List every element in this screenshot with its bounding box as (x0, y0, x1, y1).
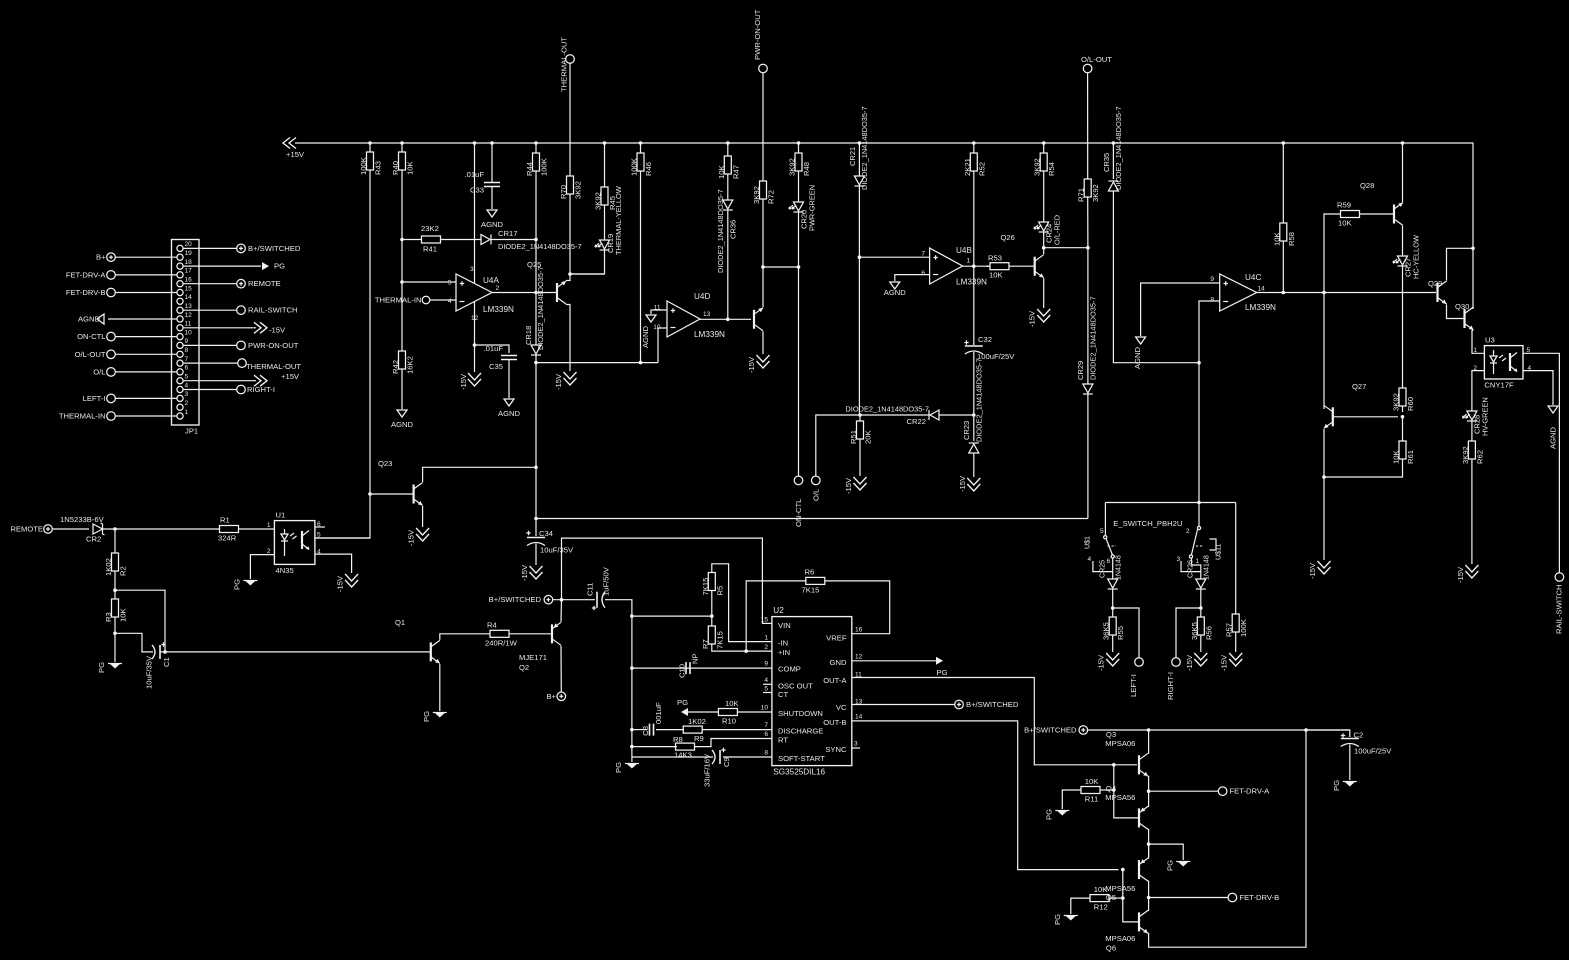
wire JP1 pin5 to +15V (183, 380, 256, 382)
svg-text:14: 14 (855, 714, 863, 721)
node Q3 base (1112, 763, 1116, 767)
node R8 tap (630, 745, 634, 749)
svg-text:VIN: VIN (778, 621, 791, 630)
wire Q6 emitter to bottom rail (1148, 730, 1306, 947)
wire JP1 pin17 to FET-DRV-A (116, 274, 177, 276)
svg-text:R3: R3 (104, 612, 113, 622)
svg-text:R47: R47 (731, 165, 740, 179)
connector JP1 (172, 240, 200, 436)
terminal O/L bottom (811, 476, 820, 501)
capacitor C2 (1306, 730, 1392, 756)
svg-text:1N4148: 1N4148 (1203, 555, 1211, 580)
svg-text:C33: C33 (470, 186, 484, 195)
svg-text:-IN: -IN (778, 639, 788, 648)
wire CR18 anode (535, 293, 537, 346)
svg-text:Q27: Q27 (1352, 382, 1366, 391)
terminal RIGHT-I right (237, 385, 275, 394)
svg-text:Q4: Q4 (1106, 784, 1117, 793)
wire U4B out to R53 (986, 265, 990, 267)
wire JP1 pin15 to FET-DRV-B (116, 292, 177, 294)
svg-text:R44: R44 (525, 161, 534, 176)
wire R4 to Q2 base (509, 633, 552, 635)
svg-text:LEFT-I: LEFT-I (83, 394, 106, 403)
node Q3 collector tap (1147, 728, 1151, 732)
terminal B+ (96, 253, 115, 262)
node Q24 collector (761, 265, 765, 269)
svg-text:3K92: 3K92 (1033, 158, 1042, 176)
svg-text:3K92: 3K92 (788, 158, 797, 176)
terminal O/L (93, 367, 115, 376)
svg-text:14K3: 14K3 (674, 751, 692, 760)
LED CR20 PWR-GREEN (789, 185, 817, 231)
svg-text:3K92: 3K92 (1392, 393, 1401, 411)
wire B+/SWITCHED row (1088, 729, 1350, 731)
wire JP1 pin18 to PG (183, 265, 261, 267)
svg-text:ON-CTL: ON-CTL (77, 332, 105, 341)
wire R10 to SHUTDOWN (737, 711, 772, 713)
resistor R2 (104, 529, 128, 576)
svg-text:1N4148: 1N4148 (1115, 555, 1123, 580)
svg-text:LM339N: LM339N (694, 330, 725, 339)
wire JP1 pin9 to PWR-ON-OUT (183, 344, 237, 346)
wire R60 to base node (1402, 406, 1404, 412)
svg-text:7: 7 (764, 722, 768, 729)
svg-text:16: 16 (185, 277, 193, 284)
wire R44 to CR17 node (535, 171, 537, 240)
resistor R58 (1272, 141, 1296, 246)
svg-text:THERMAL-OUT: THERMAL-OUT (246, 362, 301, 371)
svg-text:LM339N: LM339N (483, 305, 514, 314)
svg-text:O/L: O/L (811, 489, 820, 501)
transistor Q28 (1393, 205, 1395, 224)
svg-text:R6: R6 (805, 568, 815, 577)
capacitor C33 (465, 141, 501, 194)
svg-text:1: 1 (967, 258, 971, 265)
wire AGND to U4D plus (651, 310, 667, 314)
svg-text:SG3525DIL16: SG3525DIL16 (773, 768, 825, 777)
svg-text:CR36: CR36 (729, 220, 738, 239)
wire C35 link (475, 345, 510, 353)
svg-text:1K02: 1K02 (104, 558, 113, 576)
resistor R42 (391, 351, 415, 374)
wire Q29 emitter to Q30 base (1447, 305, 1465, 319)
node R5 R7 tap (630, 614, 634, 618)
wire CR23 to -15V (973, 453, 975, 477)
wire C2 to PG (1349, 745, 1351, 781)
svg-text:PG: PG (614, 762, 623, 773)
svg-text:.01uF: .01uF (484, 344, 504, 353)
wire R72 to collector node (762, 199, 764, 267)
svg-text:REMOTE: REMOTE (248, 279, 281, 288)
wire R41 row (402, 239, 421, 241)
svg-text:36K5: 36K5 (1190, 622, 1199, 640)
LED CR19 THERMAL-YELLOW (595, 186, 623, 255)
svg-text:3: 3 (1177, 556, 1181, 563)
wire C8 to R9 (656, 729, 684, 731)
svg-text:LM339N: LM339N (1245, 303, 1276, 312)
svg-text:CR17: CR17 (498, 229, 518, 238)
wire Q25 emitter to node (566, 274, 570, 281)
svg-text:5: 5 (448, 280, 452, 287)
wire U4B minus to AGND (895, 275, 930, 281)
svg-text:U3: U3 (1485, 336, 1495, 345)
resistor R70 (559, 176, 583, 199)
svg-text:AGND: AGND (391, 420, 414, 429)
svg-text:10K: 10K (1085, 777, 1099, 786)
optocoupler U1 4N35 (267, 511, 321, 576)
svg-text:DIODE2_1N4148DO35-7: DIODE2_1N4148DO35-7 (716, 189, 725, 273)
wire U4A supply pin3 (470, 141, 476, 283)
svg-text:8: 8 (764, 750, 768, 757)
wire B+/SWITCHED to C11 (553, 599, 595, 601)
power -15V below R56 (1185, 653, 1208, 671)
svg-text:10K: 10K (1338, 219, 1352, 228)
terminal RAIL-SWITCH bottom (1555, 573, 1564, 634)
resistor R43 (359, 141, 383, 175)
svg-text:12: 12 (185, 312, 193, 319)
wire Q28 emitter to rail (1401, 141, 1405, 202)
svg-text:3K92: 3K92 (1461, 446, 1470, 464)
svg-text:9: 9 (185, 338, 189, 345)
power -15V below Q26 (1028, 309, 1051, 327)
svg-text:O/L-OUT: O/L-OUT (75, 350, 106, 359)
svg-text:R70: R70 (559, 185, 568, 199)
svg-text:CR2: CR2 (86, 535, 101, 544)
svg-text:CR21: CR21 (848, 147, 857, 166)
svg-text:14: 14 (1258, 286, 1266, 293)
svg-text:PG: PG (233, 579, 242, 590)
wire +15V rail (295, 143, 1473, 309)
wire left column down (631, 616, 633, 757)
ground AGND below R42 (391, 410, 414, 429)
node R12 base tap (1121, 896, 1125, 900)
svg-text:20: 20 (185, 241, 193, 248)
svg-text:5: 5 (1100, 528, 1104, 535)
svg-text:JP1: JP1 (185, 427, 198, 436)
svg-text:PG: PG (1165, 860, 1174, 871)
svg-text:THERMAL-OUT: THERMAL-OUT (560, 37, 569, 92)
terminal RIGHT-I (1166, 658, 1180, 700)
svg-text:DIODE2_1N4148DO35-7: DIODE2_1N4148DO35-7 (845, 405, 929, 414)
svg-text:DIODE2_1N4148DO35-7: DIODE2_1N4148DO35-7 (498, 242, 582, 251)
svg-text:RT: RT (778, 736, 788, 745)
svg-text:3K92: 3K92 (574, 181, 583, 199)
svg-text:36K5: 36K5 (1102, 622, 1111, 640)
resistor R60 (1392, 388, 1416, 411)
svg-text:2: 2 (185, 400, 189, 407)
svg-text:R53: R53 (988, 254, 1002, 263)
svg-text:3: 3 (470, 266, 474, 273)
node C35 (473, 343, 477, 347)
wire CR35 to U4C minus row (1113, 191, 1199, 363)
wire soft-start row (632, 756, 713, 758)
svg-text:+15V: +15V (281, 372, 300, 381)
svg-text:O/L-RED: O/L-RED (1053, 215, 1062, 245)
wire Q24 emitter up (762, 267, 764, 307)
wire Q4 emitter up (1147, 791, 1150, 806)
node Q26 collector (1042, 246, 1046, 250)
wire OUT-B to Q5 base (852, 721, 1119, 870)
svg-text:2: 2 (496, 285, 500, 292)
svg-text:3: 3 (185, 391, 189, 398)
wire Q5 base chain down (1123, 870, 1139, 922)
wire R9 to DISCHARGE (702, 729, 772, 731)
resistor R45 (594, 141, 618, 210)
LED CR27 HC-YELLOW (1393, 235, 1421, 279)
transistor Q3 (1138, 755, 1140, 774)
svg-text:U4C: U4C (1245, 273, 1261, 282)
wire R56 to -15V (1200, 635, 1202, 652)
svg-text:20K: 20K (864, 430, 873, 444)
resistor R44 (525, 141, 549, 176)
wire JP1 pin16 to REMOTE (183, 283, 237, 285)
svg-text:-15V: -15V (1097, 654, 1106, 671)
label Q3 MPSA06 (1105, 730, 1135, 748)
resistor R61 (1392, 417, 1416, 464)
wire GND pin12 to PG (852, 660, 936, 662)
svg-text:SYNC: SYNC (825, 745, 847, 754)
terminal THERMAL-IN (59, 412, 115, 421)
svg-text:VREF: VREF (826, 634, 847, 643)
svg-text:PG: PG (97, 662, 106, 673)
power -15V below C34 (520, 564, 543, 581)
node U4C minus riser (1197, 361, 1201, 365)
svg-text:-15V: -15V (844, 477, 853, 494)
svg-text:B+/SWITCHED: B+/SWITCHED (966, 700, 1019, 709)
wire U1 pin4 to -15V (315, 554, 352, 573)
resistor R40 (391, 141, 415, 175)
op-amp U4B LM339N (921, 246, 987, 287)
svg-text:NP: NP (691, 653, 700, 664)
resistor R47 (717, 141, 741, 179)
ground AGND at U4C (1133, 337, 1146, 369)
svg-text:AGND: AGND (884, 288, 907, 297)
svg-text:Q2: Q2 (519, 663, 529, 672)
wire JP1 pin1 to THERMAL-IN (116, 415, 177, 417)
node R51 top (858, 413, 862, 417)
wire CR29 to bus (1087, 394, 1089, 519)
ground PG below R11 (1045, 809, 1070, 820)
power -15V at U1 pin4 (336, 574, 359, 592)
svg-text:C1: C1 (162, 657, 171, 667)
svg-text:B+/SWITCHED: B+/SWITCHED (1024, 726, 1077, 735)
wire R42 to AGND (401, 369, 403, 409)
wire COMP row (632, 667, 772, 669)
svg-text:10uF/35V: 10uF/35V (145, 655, 154, 689)
transistor Q30 (1463, 309, 1465, 328)
svg-text:PWR-ON-OUT: PWR-ON-OUT (753, 9, 762, 60)
wire mid to Q5 (1148, 844, 1150, 858)
svg-text:10K: 10K (119, 608, 128, 622)
svg-text:10uF/35V: 10uF/35V (540, 546, 574, 555)
capacitor C11 (586, 566, 611, 610)
svg-text:100K: 100K (540, 158, 549, 176)
transistor Q25 (556, 283, 558, 302)
svg-text:C10: C10 (678, 664, 687, 678)
svg-text:R58: R58 (1287, 232, 1296, 246)
wire CR36 to U4D output (727, 210, 729, 319)
svg-text:SHUTDOWN: SHUTDOWN (778, 709, 823, 718)
svg-text:6: 6 (921, 270, 925, 277)
node LEFT-I tap (1111, 606, 1115, 610)
terminal O/L-OUT (75, 350, 116, 359)
svg-text:LM339N: LM339N (956, 278, 987, 287)
power -15V below R55 (1097, 653, 1120, 671)
wire Q1 collector to R4 (440, 634, 490, 640)
svg-text:PWR-GREEN: PWR-GREEN (808, 185, 817, 231)
svg-text:PG: PG (274, 262, 285, 271)
wire R54 to CR24 (1043, 171, 1045, 222)
resistor R5 (701, 573, 725, 596)
wire R3 to PG (114, 633, 116, 662)
svg-text:R59: R59 (1337, 201, 1351, 210)
resistor R53 (988, 254, 1009, 280)
wire JP1 pin7 to THERMAL-OUT (183, 362, 238, 364)
wire Q3 emitter to FET-DRV-A (1147, 776, 1150, 791)
svg-text:6: 6 (1107, 558, 1111, 565)
wire CR20 to node row (763, 212, 799, 267)
svg-text:U4A: U4A (483, 276, 499, 285)
svg-text:VC: VC (836, 703, 847, 712)
wire Q1 emitter to PG (439, 664, 441, 711)
wire O/L-OUT to R71 (1087, 73, 1089, 179)
wire Q25 node to CR19 (570, 273, 604, 275)
ground AGND below C35 (498, 399, 521, 418)
wire PWR-ON-OUT to R72 (762, 73, 764, 181)
svg-text:E_SWITCH_PBH2U: E_SWITCH_PBH2U (1113, 519, 1182, 528)
svg-text:OUT-A: OUT-A (823, 676, 847, 685)
wire CR26 to node (1200, 589, 1202, 608)
node CR20 bottom (797, 265, 801, 269)
svg-text:R5: R5 (715, 586, 724, 596)
wire to U4A plus (402, 281, 456, 283)
diode CR21 (848, 106, 869, 190)
node Q2 emitter tap (560, 598, 564, 602)
svg-text:18: 18 (185, 259, 193, 266)
wire JP1 pin8 to O/L-OUT (116, 353, 177, 355)
svg-text:R61: R61 (1406, 450, 1415, 464)
node U4A output (534, 291, 538, 295)
wire R5 to R7 junction (711, 591, 713, 627)
wire U4C out riser to Q27 (1323, 293, 1325, 410)
node FET-DRV-A (1147, 789, 1151, 793)
svg-text:R48: R48 (802, 162, 811, 176)
node C1 right (163, 650, 167, 654)
svg-text:R56: R56 (1204, 626, 1213, 640)
terminal LEFT-I (1129, 658, 1143, 697)
wire JP1 pin19 to B+ (116, 256, 177, 258)
wire R11 to PG (1062, 790, 1081, 809)
svg-text:8: 8 (1210, 297, 1214, 304)
svg-text:10K: 10K (989, 271, 1003, 280)
wire Q24 collector to -15V (762, 331, 764, 354)
svg-text:324R: 324R (218, 534, 237, 543)
svg-text:HC-YELLOW: HC-YELLOW (1412, 235, 1421, 279)
power -15V at JP1 pin11 (254, 322, 286, 334)
terminal FET-DRV-A out (1218, 787, 1270, 796)
wire CR18 cathode node (535, 355, 537, 363)
svg-text:PG: PG (677, 698, 688, 707)
resistor R3 (104, 590, 128, 622)
svg-text:Q3: Q3 (1106, 730, 1116, 739)
node U4A plus input (400, 280, 404, 284)
wire node to C1 right (115, 590, 165, 652)
node R60 bottom (1401, 415, 1405, 419)
svg-text:OUT-B: OUT-B (823, 718, 846, 727)
ground PG below R12 (1053, 914, 1078, 925)
svg-text:MPSA56: MPSA56 (1105, 884, 1135, 893)
wire R47 to CR36 (727, 174, 729, 200)
terminal REMOTE input (10, 525, 52, 534)
diode CR18 (524, 266, 545, 355)
power -15V below R62 (1456, 565, 1478, 583)
svg-text:U4B: U4B (956, 246, 972, 255)
wire R61 to emitter row (1324, 459, 1403, 477)
diode CR17 (481, 229, 582, 251)
svg-text:C11: C11 (586, 583, 595, 596)
svg-text:FET-DRV-B: FET-DRV-B (66, 288, 106, 297)
terminal O/L-OUT top (1081, 55, 1112, 73)
wire VC to B+/SWITCHED (852, 704, 955, 706)
wire R43 to Q23 base (369, 170, 371, 494)
svg-text:-15V: -15V (520, 564, 529, 581)
svg-text:R71: R71 (1077, 188, 1086, 202)
svg-text:19: 19 (185, 250, 193, 257)
svg-text:O/L-OUT: O/L-OUT (1081, 55, 1112, 64)
diode CR23 (962, 358, 984, 453)
svg-text:1: 1 (185, 409, 189, 416)
svg-text:7K15: 7K15 (715, 631, 724, 649)
wire THERMAL-IN to U4A minus (430, 299, 456, 301)
op-amp U4C LM339N (1210, 273, 1276, 312)
svg-text:7K15: 7K15 (802, 586, 820, 595)
node U4B output (972, 264, 976, 268)
diode CR26 1N4148 (1187, 555, 1211, 589)
svg-text:AGND: AGND (78, 315, 101, 324)
svg-text:AGND: AGND (1549, 426, 1558, 449)
wire JP1 pin11 to -15V (183, 327, 256, 329)
wire junction row (632, 615, 712, 617)
wire Q26 collector up (1043, 248, 1045, 255)
svg-text:2: 2 (267, 548, 271, 555)
wire Q6 collector up (1147, 898, 1150, 911)
terminal ON-CTL bottom (794, 476, 803, 527)
wire R57 to -15V (1235, 632, 1237, 652)
wire to LEFT-I (1113, 608, 1139, 658)
svg-text:C34: C34 (539, 529, 554, 538)
wire U3 pin5 to RAIL-SWITCH (1523, 353, 1559, 572)
svg-text:-15V: -15V (336, 575, 345, 592)
wire R5 top to -IN (712, 564, 772, 642)
terminal FET-DRV-B out (1228, 893, 1279, 902)
wire U4C minus (1199, 301, 1220, 363)
terminal B+/SWITCHED driver (1024, 726, 1087, 735)
svg-text:R1: R1 (220, 516, 230, 525)
svg-text:R42: R42 (391, 360, 400, 374)
wire FET-DRV-B row (1149, 897, 1229, 899)
svg-text:THERMAL-IN: THERMAL-IN (375, 296, 422, 305)
wire R52 to U4B output (973, 171, 975, 266)
zener diode CR2 1N5233B-6V (60, 515, 105, 544)
svg-text:THERMAL-IN: THERMAL-IN (59, 412, 106, 421)
svg-text:MPSA06: MPSA06 (1105, 934, 1135, 943)
transistor Q24 (753, 310, 755, 329)
power -15V below Q27 (1308, 561, 1331, 579)
svg-text:FET-DRV-B: FET-DRV-B (1240, 893, 1280, 902)
node switch common (1197, 501, 1201, 505)
node Q27 collector riser (1322, 291, 1326, 295)
svg-text:-15V: -15V (1185, 654, 1194, 671)
